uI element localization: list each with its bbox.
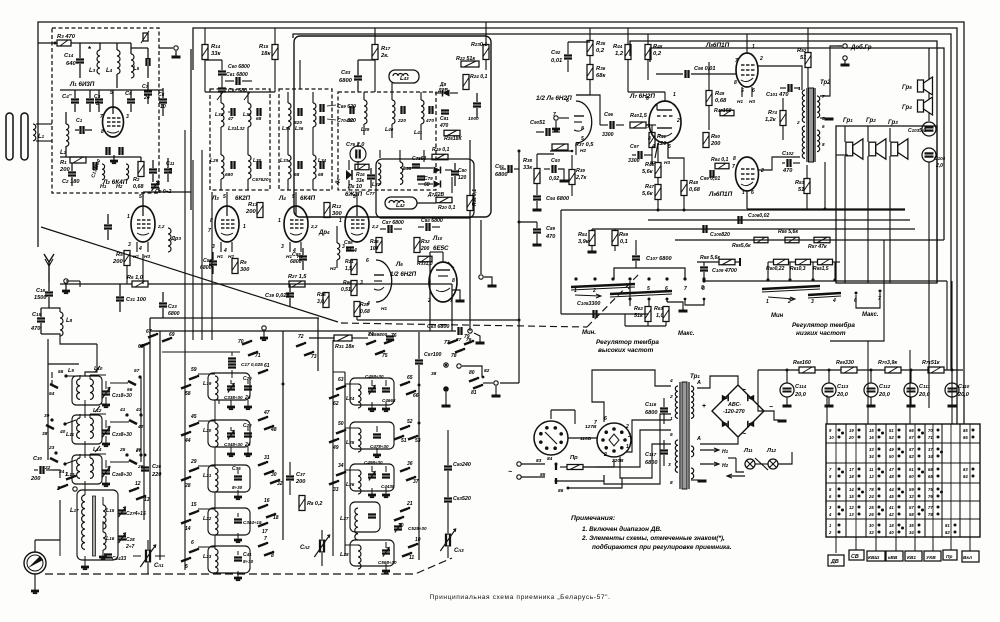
capacitor C43 6800 [386,335,394,337]
wire rail y240 [675,239,944,241]
svg-text:78: 78 [928,512,933,517]
svg-text:11: 11 [869,467,874,472]
coil L16 [103,532,106,550]
svg-text:68: 68 [318,172,324,178]
capacitor C57 100 [415,359,423,361]
svg-text:0,68: 0,68 [133,184,144,190]
wire rail y209 [747,208,905,210]
wire rail y220 [648,219,910,221]
svg-text:С67620: С67620 [252,177,269,183]
svg-text:высоких частот: высоких частот [598,347,654,354]
resistor R28 0,68 [354,302,360,317]
svg-text:2: 2 [592,288,596,294]
capacitor C76 2,0 [350,146,366,162]
left osc contacts 39 40 [50,418,53,421]
row2 wires [65,420,76,424]
filter cap C111 [904,383,918,397]
magnetic antenna bar 2 [21,113,28,160]
svg-text:КВШ: КВШ [868,555,879,561]
socket bridge wire [568,437,597,439]
svg-text:4: 4 [366,301,370,307]
IF1 cap C67 620 [256,161,258,169]
svg-text:200: 200 [710,141,721,147]
wire tank to L9 [85,344,97,376]
svg-text:С57100: С57100 [424,352,442,358]
svg-text:470: 470 [30,326,41,332]
svg-text:2: 2 [669,394,673,400]
svg-text:0,01: 0,01 [551,58,562,64]
table rows [826,442,980,444]
svg-text:R31 18к: R31 18к [335,344,354,350]
wire top bus 3 [293,34,951,370]
tube L10 pin8 gnd [452,290,460,300]
svg-text:R3 470: R3 470 [57,34,76,40]
svg-text:низких частот: низких частот [796,330,846,337]
wires PSU primary [596,430,671,467]
capacitor C23 8-30 [102,429,110,431]
svg-text:60: 60 [909,474,914,479]
terminal to gnd [494,381,498,385]
can box L19 [208,373,250,400]
resistor R23 0,1 [483,45,489,60]
svg-text:С1053300: С1053300 [577,301,600,307]
svg-text:кВВ: кВВ [888,555,898,561]
svg-text:200: 200 [295,479,306,485]
resistor R56 5,6k [785,237,799,243]
coil L5 [131,54,134,78]
svg-text:6800: 6800 [168,311,180,317]
bass maks wire [856,293,880,308]
wire bus x519 [518,151,520,383]
resistor R52 51 [805,53,811,68]
resistor R45 0,2 [645,45,651,60]
resistor R71 51k [928,367,944,373]
diode D8 top [443,90,450,97]
svg-text:3: 3 [126,114,129,120]
svg-text:11: 11 [409,555,414,561]
coil L3 [97,50,100,74]
svg-text:65: 65 [928,474,933,479]
IF2 top lead [299,81,301,89]
can box L21 [208,465,250,492]
svg-text:Доб.Гр: Доб.Гр [850,44,872,51]
svg-text:78: 78 [869,487,874,492]
gang dash bottom [45,558,452,574]
capacitor C58 6800 left [104,224,112,226]
svg-text:R230,1: R230,1 [471,42,487,48]
svg-text:1: 1 [65,472,68,478]
Tr2 sec tap gnd [820,117,827,119]
bank2 grounds [230,400,232,406]
svg-text:53: 53 [415,438,421,444]
svg-text:0,02: 0,02 [549,176,559,182]
svg-text:40: 40 [888,530,894,535]
svg-text:38: 38 [42,431,48,437]
svg-text:200: 200 [112,259,123,265]
svg-text:1: 1 [798,86,801,91]
resistor R19 0,1 [432,154,448,160]
tube U5 L5 6Zh3P [345,206,369,242]
Tr1 secondary heaters [691,446,694,457]
svg-text:42: 42 [137,424,144,430]
bank3 L26 group [336,473,344,476]
treble drops [629,298,632,301]
svg-text:С258÷30: С258÷30 [112,472,132,478]
svg-text:51: 51 [800,55,806,61]
svg-text:5,6к: 5,6к [642,169,654,175]
coil L15 [103,505,106,529]
wire R3 to bus [38,42,57,44]
table feed wires from above [826,395,828,424]
capacitor C103 5,0 [922,122,936,136]
IF1 coil L29 [221,155,224,179]
svg-text:51: 51 [346,247,352,253]
svg-text:Л86П1П: Л86П1П [705,42,730,49]
svg-text:220В: 220В [611,458,624,464]
svg-text:8÷30: 8÷30 [232,485,243,490]
capacitor C19 470 [37,317,45,319]
capacitor C84 6800 [425,223,427,231]
wire psu to rect [758,370,764,411]
svg-text:5: 5 [292,194,295,200]
bank3 row wires [345,383,358,385]
contacts 57 56 [138,375,141,378]
gang dash to tone [341,323,587,327]
wire vert x561 [560,210,562,314]
resistor R68 160 [799,367,815,373]
svg-text:25: 25 [868,505,874,510]
svg-text:13: 13 [144,497,150,503]
wire to contacts 80 [462,366,482,377]
svg-text:33: 33 [333,487,339,493]
wire C83 rail [358,59,375,61]
wire L8 plate to Tr2 [758,66,802,90]
svg-text:36: 36 [407,461,413,467]
bank3 L25 group [336,431,344,434]
svg-text:R600,22: R600,22 [766,266,785,272]
svg-text:АВС-: АВС- [727,402,742,408]
svg-text:127В: 127В [585,424,597,430]
Tr2 secondary [817,96,820,118]
svg-text:69: 69 [169,332,175,338]
capacitor C83 6800 [354,75,362,77]
svg-text:59: 59 [909,487,914,492]
svg-text:1: 1 [127,214,130,220]
resistor R43 160 [720,110,734,116]
svg-text:30: 30 [271,472,277,478]
svg-text:3: 3 [281,244,284,250]
capacitor C79 68 [417,175,425,177]
svg-text:19: 19 [849,428,854,433]
resistor R53 51 [804,179,810,194]
svg-text:15: 15 [191,502,197,508]
svg-text:6: 6 [751,190,754,196]
capacitor C18 1500 [45,291,53,293]
IF2 cap C71 68 [297,161,299,169]
svg-text:УКВ: УКВ [926,555,936,561]
svg-text:20: 20 [848,435,854,440]
svg-text:3: 3 [668,462,671,468]
filament caps [105,147,107,155]
svg-text:Мин.: Мин. [582,330,596,336]
svg-text:25: 25 [119,447,126,453]
svg-text:R57 47к: R57 47к [808,244,827,250]
wires C97 leads [632,154,636,156]
svg-text:1,5: 1,5 [345,266,352,272]
transformer Tr1 core [682,382,687,489]
capacitor C29 6800 [159,302,167,304]
svg-text:84: 84 [547,456,553,462]
tube U2 L2 6K4P [131,206,155,242]
capacitor C53 520 [444,497,452,499]
svg-text:220: 220 [397,118,406,124]
band label KVB [886,551,903,561]
svg-text:50: 50 [338,421,344,427]
svg-text:3: 3 [628,433,631,439]
svg-text:42: 42 [888,512,894,517]
svg-text:8: 8 [733,156,736,162]
heater L7 [655,143,658,158]
svg-text:640: 640 [66,61,76,67]
treble arrow [575,295,600,296]
svg-text:51: 51 [401,438,407,444]
bass resistor R60 0,22 [774,259,789,265]
svg-text:R6 1,0: R6 1,0 [127,275,144,281]
capacitor C58 6800 [209,260,217,262]
svg-text:R69330: R69330 [836,360,854,366]
capacitor C6 [127,98,135,100]
svg-text:75: 75 [928,487,933,492]
svg-text:82: 82 [484,368,490,374]
svg-text:13: 13 [849,512,854,517]
svg-text:С62 680: С62 680 [228,88,247,94]
svg-text:6800: 6800 [290,259,302,265]
heater arrows L4 [289,242,291,252]
capacitor C25 8-30 [102,469,110,471]
wire top bus 4 [630,41,937,283]
capacitor C37 200 [286,475,294,477]
magnetic antenna bar 1 [6,113,13,160]
IF dashed box 3 [338,92,436,190]
svg-text:С53520: С53520 [453,496,471,502]
resistor R47 56k [655,185,661,200]
svg-text:Мин: Мин [771,313,784,319]
IF1 coil L30 [248,155,251,179]
svg-text:С2 180: С2 180 [62,179,80,185]
svg-text:С1060,02: С1060,02 [748,213,769,219]
bank3 bus verticals [332,340,334,556]
svg-text:12: 12 [135,481,141,487]
svg-text:37: 37 [928,447,933,452]
svg-text:Принципиальная схема приемника: Принципиальная схема приемника „Беларусь… [429,594,610,601]
contacts 25 27 26 [125,453,128,456]
capacitor C97 3300 [637,151,639,159]
coil L37 [378,163,381,185]
capacitor C5 [86,98,94,100]
tube U6b half 6N2P [576,101,592,143]
svg-text:100: 100 [370,246,379,252]
wire eye tube [442,252,444,262]
resistor R59 0,1 [612,231,618,246]
svg-text:1,2к: 1,2к [765,117,777,123]
wire osc area [52,470,60,478]
svg-text:61: 61 [264,363,270,369]
svg-text:7: 7 [735,58,738,64]
svg-text:R24 0,1: R24 0,1 [470,74,488,80]
table column feed wires [835,424,837,537]
svg-text:А: А [696,380,701,386]
svg-text:470: 470 [782,168,793,174]
svg-text:С94 6800: С94 6800 [546,196,570,202]
capacitor C107 6800 [632,255,640,257]
svg-text:39: 39 [44,413,50,419]
svg-text:Л10: Л10 [432,235,443,242]
svg-text:33к: 33к [211,51,221,57]
bass resistor R61 0,3 [796,259,811,265]
svg-text:7: 7 [100,114,103,120]
resistor R5 200 [124,251,130,266]
IF3 coil L40 [392,100,395,124]
svg-text:~: ~ [742,387,746,394]
svg-text:5,6к: 5,6к [642,191,654,197]
contacts 74 75 76 [366,342,374,345]
L17 core [93,496,96,556]
resistor R26 3,0 [323,293,329,308]
speaker Gr5 [918,80,924,92]
contacts 72 73 [296,344,304,347]
wire tube anode [112,90,114,107]
svg-text:300: 300 [240,267,250,273]
svg-text:34: 34 [338,463,344,469]
svg-text:27: 27 [135,448,142,453]
IF dashed box 1 [210,89,270,190]
band label KV3 [867,551,885,561]
capacitor C1 0 [79,126,81,134]
variable cap Cp2 [319,540,321,553]
capacitor C105 002 [737,216,739,224]
svg-text:20,0: 20,0 [836,392,849,398]
heater arrows L2 [136,242,138,252]
svg-text:3,0: 3,0 [317,299,324,305]
table stem lines [835,537,837,553]
wire Gr45 [928,92,930,100]
wire top bus 2 [193,28,957,424]
svg-text:21: 21 [406,501,413,507]
capacitor C93 0,02 [551,165,553,173]
bank3 L24 group [336,387,344,390]
svg-text:41: 41 [888,505,894,510]
wire L9 cathode rail [746,191,748,209]
svg-text:32: 32 [909,494,914,499]
svg-text:С528÷30: С528÷30 [408,526,427,531]
svg-text:1: 1 [278,218,281,224]
svg-text:Тр2: Тр2 [820,80,831,86]
svg-text:30: 30 [869,523,874,528]
resistor R50 200 [703,133,709,148]
wire Tr2 pin4 drop [824,162,826,209]
svg-text:75: 75 [382,353,388,359]
wire long mid rail [60,283,132,285]
IF2 coil L36 [313,103,316,127]
svg-text:R401,5: R401,5 [630,113,648,119]
choke Dr3 [168,228,171,252]
table columns [845,424,847,537]
svg-text:200: 200 [245,209,256,215]
coil L11 [77,418,80,438]
svg-text:68к: 68к [596,73,606,79]
wire vert x430 [429,252,431,331]
bass slider bar2 [808,293,841,295]
wire L3 L4 L5 anodes [226,192,228,206]
svg-text:1000: 1000 [468,116,479,122]
coil L2 [66,124,69,146]
capacitor C96 3300 [609,121,611,129]
svg-text:8: 8 [822,142,825,147]
resistor R17 2k [372,45,378,60]
svg-text:8÷30: 8÷30 [243,559,254,564]
ground terminal [64,279,68,283]
svg-text:С218÷30: С218÷30 [112,393,132,399]
can box L28 [350,540,394,566]
svg-text:R651,5: R651,5 [813,266,829,272]
capacitor C99 0,01 [709,170,711,178]
resistor R31 18k [334,335,352,341]
resistor R38 33k [534,169,540,184]
treble bracket [614,268,685,279]
svg-text:С61 6800: С61 6800 [226,72,248,78]
coil L12 [90,418,93,438]
bus verticals left lower [149,318,151,560]
svg-text:77: 77 [928,505,933,510]
capacitor C4 [71,98,79,100]
converter block dashed box [52,28,159,193]
speaker Gr2 [869,142,876,156]
svg-text:59: 59 [191,367,197,373]
svg-text:С384÷15: С384÷15 [243,520,262,525]
band label KV1 [905,551,922,561]
svg-text:47: 47 [227,116,234,122]
Tr2 primary [802,90,805,122]
variable cap Cp3 [445,534,447,547]
bank2 L19 group [189,377,197,380]
band label Vkl [962,551,979,562]
capacitor C91 6800 [507,165,509,173]
resistor R27 1,5 [289,281,305,287]
bridge rectifier ABC [712,385,764,437]
IF2 coil L35 [288,103,291,127]
svg-text:70: 70 [928,428,933,433]
svg-text:34: 34 [869,454,874,459]
svg-text:48: 48 [888,474,894,479]
svg-text:2: 2 [787,299,791,305]
wire speaker drop [928,162,930,408]
bass arrow [768,297,794,299]
svg-text:2: 2 [625,424,629,430]
bass wires row [768,261,774,263]
resistor R9 300 [232,259,238,274]
treble lower wire [561,313,625,315]
can box L25 [350,422,394,449]
svg-text:С39 0,025: С39 0,025 [265,293,291,299]
svg-text:6Е5С: 6Е5С [433,245,449,252]
capacitor C26 220 [141,466,149,468]
svg-text:77: 77 [444,340,450,346]
capacitor C31 100 [116,296,124,298]
capacitor C50 240 [444,465,452,467]
bass slider contacts [766,278,769,281]
svg-text:Л1 6И3П: Л1 6И3П [69,81,95,88]
svg-text:51: 51 [889,428,894,433]
